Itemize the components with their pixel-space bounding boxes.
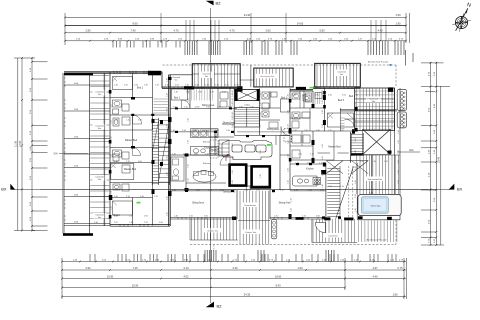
- svg-text:Covered: Covered: [337, 70, 346, 73]
- svg-text:Sitting Area: Sitting Area: [279, 202, 291, 205]
- window lines bottom walls mullions: [178, 217, 322, 219]
- bed in Bed2 top-left: [113, 77, 133, 90]
- lower walls central units: [170, 88, 330, 219]
- svg-text:1.60: 1.60: [226, 130, 230, 132]
- tv unit dashes living: [210, 140, 218, 158]
- svg-text:1.20: 1.20: [328, 130, 332, 132]
- svg-text:1.20: 1.20: [126, 161, 130, 163]
- svg-text:4.75: 4.75: [229, 29, 235, 33]
- svg-text:2.10: 2.10: [189, 216, 193, 218]
- svg-text:3.60: 3.60: [265, 29, 271, 33]
- left unit bath fixtures: [113, 100, 122, 107]
- svg-text:1.40: 1.40: [260, 98, 262, 102]
- covered veranda block B1 top: [192, 64, 240, 88]
- svg-text:2.10: 2.10: [308, 189, 312, 191]
- black wall bottom-left: [63, 233, 93, 236]
- top dimension tick slashes: [64, 16, 407, 18]
- lift shaft with cross: [235, 89, 259, 100]
- svg-text:Uncov. Ver.: Uncov. Ver.: [245, 231, 256, 234]
- overlay section line BX thin: [40, 188, 428, 190]
- svg-text:1.20: 1.20: [154, 196, 158, 198]
- closet right unit: [341, 118, 345, 128]
- svg-text:2.10: 2.10: [304, 130, 308, 132]
- bottom window tick clusters: [90, 254, 396, 262]
- svg-text:2.10: 2.10: [205, 85, 209, 87]
- svg-text:1.40: 1.40: [398, 130, 400, 134]
- svg-text:1.40: 1.40: [166, 196, 168, 200]
- section marker BZ bottom: [206, 302, 214, 308]
- svg-text:Ver: Ver: [340, 73, 344, 76]
- right unit top walls: [290, 87, 360, 91]
- svg-text:14.65: 14.65: [297, 21, 304, 25]
- svg-text:1.40: 1.40: [260, 90, 262, 94]
- svg-text:2.10: 2.10: [310, 153, 314, 155]
- black wall segment between verandas: [296, 87, 306, 90]
- svg-text:Swim Spa: Swim Spa: [371, 206, 382, 208]
- svg-text:1.40: 1.40: [372, 161, 376, 163]
- svg-text:BZ: BZ: [217, 304, 223, 309]
- svg-text:1.40: 1.40: [291, 208, 293, 212]
- door frames unit2: [168, 117, 172, 122]
- svg-text:Bed 2: Bed 2: [137, 87, 144, 90]
- svg-text:Sitting Area: Sitting Area: [192, 202, 204, 205]
- corridor lower wall: [234, 135, 290, 137]
- left balcony strip walls: [64, 73, 90, 234]
- svg-text:0.90: 0.90: [138, 161, 142, 163]
- svg-text:0.90: 0.90: [159, 222, 163, 224]
- svg-text:3.05: 3.05: [175, 85, 179, 87]
- svg-text:Covered: Covered: [95, 214, 104, 217]
- corridor walls central: [234, 88, 259, 135]
- svg-text:1.40: 1.40: [166, 140, 168, 144]
- left unit top wall: [64, 72, 162, 73]
- svg-text:1.40: 1.40: [260, 174, 262, 178]
- svg-text:1.05: 1.05: [328, 186, 332, 188]
- svg-text:2.80: 2.80: [85, 29, 91, 33]
- svg-text:1.40: 1.40: [260, 124, 262, 128]
- svg-text:1.40: 1.40: [288, 124, 290, 128]
- red mark: [227, 154, 229, 156]
- left dimension lines: [14, 58, 35, 231]
- svg-text:2.56: 2.56: [360, 161, 364, 163]
- unit2 interior walls: [170, 88, 237, 191]
- svg-text:1.40: 1.40: [355, 194, 357, 198]
- svg-text:1.40: 1.40: [288, 94, 290, 98]
- svg-text:Uncov. Ver.: Uncov. Ver.: [207, 229, 218, 232]
- lift shaft box 1 black walls: [230, 165, 247, 186]
- small covered ver left of B1: [169, 75, 193, 87]
- svg-text:24.30: 24.30: [244, 292, 251, 296]
- svg-text:1.40: 1.40: [291, 198, 293, 202]
- svg-text:1.40: 1.40: [288, 180, 290, 184]
- svg-text:1.80: 1.80: [392, 292, 398, 296]
- svg-text:17.25: 17.25: [19, 140, 22, 147]
- covered veranda block B3 top: [315, 63, 361, 87]
- svg-text:1.40: 1.40: [111, 154, 113, 158]
- left ladder column second rail: [104, 73, 106, 226]
- svg-text:2.10: 2.10: [182, 130, 186, 132]
- svg-text:Master Bed: Master Bed: [125, 139, 138, 142]
- wall y131.9 continuation under core: [237, 131, 290, 133]
- svg-text:1.40: 1.40: [232, 112, 234, 116]
- top window tick clusters: [113, 41, 180, 48]
- bath cluster left unit more fixtures: [122, 104, 129, 111]
- svg-text:Uncovered Ver: Uncovered Ver: [260, 75, 275, 78]
- svg-text:1.40: 1.40: [398, 140, 400, 144]
- louvre strip right 1: [397, 89, 406, 110]
- svg-text:2.90: 2.90: [85, 266, 91, 270]
- svg-text:1.40: 1.40: [260, 112, 262, 116]
- stair flight diagonal: [336, 166, 354, 218]
- svg-text:4.02: 4.02: [183, 274, 189, 278]
- svg-text:1.40: 1.40: [355, 150, 357, 154]
- svg-text:3.46: 3.46: [232, 266, 238, 270]
- svg-text:Kitchen: Kitchen: [306, 168, 314, 171]
- svg-text:9.43: 9.43: [275, 283, 281, 287]
- svg-text:1.40: 1.40: [322, 110, 324, 114]
- bath cluster unit2 left: [171, 157, 184, 181]
- pool precinct bottom wall: [357, 219, 400, 221]
- svg-text:Lift: Lift: [246, 94, 249, 97]
- svg-text:Architectural Facade: Architectural Facade: [368, 60, 389, 63]
- svg-text:Covered ver: Covered ver: [244, 204, 256, 207]
- svg-text:15.90: 15.90: [132, 283, 139, 287]
- svg-text:G/A: G/A: [409, 148, 414, 152]
- svg-text:2.10: 2.10: [183, 153, 187, 155]
- svg-text:4.97: 4.97: [372, 266, 378, 270]
- small wall stubs details: [215, 108, 341, 161]
- svg-text:1.40: 1.40: [232, 116, 234, 120]
- svg-text:1.40: 1.40: [355, 180, 357, 184]
- bed in Bed2 bottom-left: [113, 201, 133, 215]
- wardrobe hatches right unit top: [315, 92, 320, 104]
- svg-text:1.40: 1.40: [260, 150, 262, 154]
- kitchen center fixtures detail: [219, 140, 229, 156]
- pergola grid right: [355, 88, 395, 131]
- central WC fixtures extra: [262, 111, 269, 117]
- right staircase lower flight: [326, 163, 357, 220]
- svg-text:1.40: 1.40: [166, 212, 168, 216]
- svg-text:1.40: 1.40: [322, 184, 324, 188]
- svg-text:1.20: 1.20: [250, 107, 254, 109]
- svg-text:9.60: 9.60: [132, 21, 138, 25]
- north arrow compass: [452, 8, 470, 31]
- svg-text:Master Bed: Master Bed: [328, 146, 341, 149]
- svg-text:1.20: 1.20: [208, 189, 212, 191]
- window mullions top wall: [114, 71, 150, 74]
- svg-text:1.40: 1.40: [322, 144, 324, 148]
- svg-text:Kitchen: Kitchen: [203, 162, 211, 165]
- door arc bottom right unit: [315, 223, 325, 233]
- svg-text:10.60: 10.60: [275, 274, 282, 278]
- svg-text:Ver: Ver: [98, 216, 102, 219]
- svg-text:4.40: 4.40: [372, 274, 378, 278]
- svg-text:Dining Area: Dining Area: [267, 128, 280, 131]
- svg-text:1.40: 1.40: [111, 136, 113, 140]
- bed in Bed1 unit2: [172, 89, 188, 100]
- covered veranda pergola slats left column: [90, 76, 109, 219]
- small walls around central WC: [218, 88, 280, 120]
- svg-text:1.40: 1.40: [298, 153, 302, 155]
- left balcony division walls: [64, 85, 110, 226]
- unit2 top wall: [162, 72, 237, 89]
- svg-text:Cov'd Ver: Cov'd Ver: [328, 234, 338, 237]
- svg-text:Ver: Ver: [98, 178, 102, 181]
- hatch below pool: [359, 221, 397, 243]
- svg-text:Covered: Covered: [202, 72, 211, 75]
- mullion ticks top wall y88: [174, 87, 230, 89]
- black corner block top right: [388, 87, 393, 92]
- dashed shaft rectangle: [284, 129, 291, 142]
- svg-text:1.40: 1.40: [111, 120, 113, 124]
- svg-text:1.40: 1.40: [398, 170, 400, 174]
- svg-text:3.05: 3.05: [124, 85, 128, 87]
- svg-text:1.40: 1.40: [288, 140, 290, 144]
- svg-text:21.00: 21.00: [15, 140, 18, 147]
- black door frames lower walls: [296, 217, 304, 220]
- blue mark top right: [390, 64, 392, 66]
- dining table right unit: [269, 122, 278, 128]
- svg-text:Ver: Ver: [98, 93, 102, 96]
- svg-text:2.40: 2.40: [114, 216, 118, 218]
- section marker BZ top: [206, 1, 214, 6]
- right edge walls: [395, 50, 414, 220]
- section line BZ: [209, 8, 211, 303]
- bath fixtures right unit: [292, 93, 300, 99]
- left dimension tick stubs: [32, 62, 48, 231]
- svg-text:1.40: 1.40: [166, 156, 168, 160]
- svg-text:1.40: 1.40: [398, 150, 400, 154]
- svg-text:Ver: Ver: [174, 78, 177, 81]
- svg-text:1.40: 1.40: [232, 170, 234, 174]
- svg-text:1.40: 1.40: [232, 180, 234, 184]
- svg-text:7.15: 7.15: [132, 266, 138, 270]
- door arc right unit: [345, 119, 356, 130]
- top dimension extension lines: [161, 13, 286, 43]
- stair central (treads): [234, 108, 259, 128]
- svg-text:1.60: 1.60: [297, 266, 303, 270]
- pool precinct: [358, 195, 401, 216]
- left unit party wall: [169, 75, 171, 226]
- svg-text:Bed 1: Bed 1: [174, 98, 181, 100]
- closet hatch unit2 upper: [192, 89, 213, 101]
- section marker BX left: [10, 184, 15, 190]
- svg-text:Kitchen: Kitchen: [203, 141, 211, 144]
- svg-text:1.20: 1.20: [210, 92, 214, 94]
- svg-text:12.80: 12.80: [195, 107, 200, 109]
- svg-text:4.45: 4.45: [377, 29, 383, 33]
- svg-text:BZ: BZ: [216, 1, 222, 6]
- louvre stack bottom centre: [271, 220, 277, 239]
- svg-text:1.50: 1.50: [395, 13, 401, 17]
- svg-text:3.05: 3.05: [114, 222, 118, 224]
- svg-text:Uncovered Ver: Uncovered Ver: [368, 178, 383, 181]
- extra door jambs along walls: [175, 131, 178, 133]
- svg-text:0.75: 0.75: [397, 266, 403, 270]
- wall texture right bath zone: [290, 91, 313, 146]
- svg-text:Ver: Ver: [98, 127, 102, 130]
- svg-text:1.40: 1.40: [232, 90, 234, 94]
- svg-text:0.90: 0.90: [316, 130, 320, 132]
- bed foot lines master bed right: [318, 152, 331, 154]
- black wall segments unit2 top: [184, 86, 194, 89]
- bed1 left room walls: [170, 97, 190, 99]
- door frames left unit (black): [152, 119, 155, 123]
- green mark left unit: [137, 202, 141, 204]
- black block right mid: [388, 151, 392, 154]
- svg-text:10.90: 10.90: [107, 274, 114, 278]
- corridor gap wall between verandas B1 B2: [250, 65, 252, 87]
- svg-text:1.40: 1.40: [322, 156, 324, 160]
- black wall segment unit2 top: [148, 71, 161, 76]
- svg-text:2.10: 2.10: [126, 196, 130, 198]
- svg-text:1.40: 1.40: [288, 168, 290, 172]
- svg-text:2.10: 2.10: [186, 92, 190, 94]
- green mark sofa: [267, 144, 271, 146]
- svg-text:1.40: 1.40: [355, 90, 357, 94]
- svg-text:3.05: 3.05: [225, 85, 229, 87]
- stair void dashed strip: [348, 166, 350, 219]
- svg-text:G/A: G/A: [53, 153, 58, 156]
- svg-text:0.75: 0.75: [193, 130, 197, 132]
- svg-text:4.30: 4.30: [328, 95, 332, 97]
- hallway lines central bottom: [246, 186, 250, 191]
- svg-text:0.90: 0.90: [198, 92, 202, 94]
- svg-text:0.90: 0.90: [144, 216, 148, 218]
- svg-text:2.10: 2.10: [144, 222, 148, 224]
- svg-text:1.40: 1.40: [114, 196, 118, 198]
- bed in Master Bed left: [111, 164, 134, 180]
- svg-text:BX: BX: [1, 186, 7, 191]
- svg-text:Kitchen: Kitchen: [204, 147, 212, 150]
- bottom veranda hatch right segment: [313, 219, 355, 243]
- living room sofa group: [222, 141, 272, 160]
- section marker BX right: [449, 184, 455, 190]
- bottom dimension lines: [62, 258, 407, 299]
- svg-text:1.40: 1.40: [355, 208, 357, 212]
- svg-text:2.10: 2.10: [183, 266, 189, 270]
- svg-text:1.40: 1.40: [398, 160, 400, 164]
- svg-text:Covered: Covered: [95, 176, 104, 179]
- svg-text:1.40: 1.40: [322, 172, 324, 176]
- wall y110 right with mullions: [340, 109, 397, 111]
- svg-text:1.40: 1.40: [232, 102, 234, 106]
- svg-text:BX: BX: [457, 186, 463, 191]
- svg-text:1.40: 1.40: [232, 143, 234, 147]
- svg-text:1.40: 1.40: [232, 124, 234, 128]
- left unit interior walls: [110, 73, 170, 226]
- svg-text:1.20: 1.20: [280, 189, 284, 191]
- svg-text:2.10: 2.10: [340, 186, 344, 188]
- svg-text:1.40: 1.40: [398, 180, 400, 184]
- svg-text:2.30: 2.30: [144, 85, 148, 87]
- svg-text:1.40: 1.40: [111, 104, 113, 108]
- svg-text:1.40: 1.40: [172, 153, 176, 155]
- svg-text:1.20: 1.20: [274, 216, 278, 218]
- svg-text:0.90: 0.90: [194, 153, 198, 155]
- svg-text:1.40: 1.40: [322, 124, 324, 128]
- svg-text:1.30: 1.30: [204, 130, 208, 132]
- svg-text:1.40: 1.40: [172, 189, 176, 191]
- left unit bottom wall: [110, 225, 170, 227]
- lift shaft box 2 black walls: [252, 166, 270, 187]
- svg-text:1.40: 1.40: [232, 156, 234, 160]
- svg-text:24.30: 24.30: [244, 13, 251, 17]
- svg-text:1.40: 1.40: [166, 93, 168, 97]
- swim spa pool: [361, 197, 388, 213]
- svg-text:1.40: 1.40: [355, 138, 357, 142]
- svg-text:3.05: 3.05: [342, 95, 346, 97]
- bed in Bed1 right: [281, 99, 290, 112]
- window lines left wall mullions: [64, 78, 66, 220]
- overlay section line BZ thin: [209, 60, 211, 250]
- svg-text:2.10: 2.10: [206, 107, 210, 109]
- dashed architectural facade boundary top: [163, 64, 397, 66]
- section line BX: [12, 188, 450, 190]
- svg-text:1.40: 1.40: [293, 130, 297, 132]
- svg-text:1.40: 1.40: [294, 189, 298, 191]
- svg-text:1.40: 1.40: [232, 98, 234, 102]
- right dimension tick stubs: [421, 126, 436, 238]
- svg-text:1.40: 1.40: [322, 100, 324, 104]
- svg-text:0.90: 0.90: [315, 95, 319, 97]
- svg-text:1.40: 1.40: [174, 92, 178, 94]
- svg-text:0.90: 0.90: [239, 107, 243, 109]
- svg-text:Covered: Covered: [95, 91, 104, 94]
- landing black bar: [351, 153, 363, 155]
- GA marker right: [397, 151, 420, 153]
- svg-text:1.20: 1.20: [319, 163, 323, 165]
- svg-text:1.40: 1.40: [129, 222, 133, 224]
- X cross lower pergola: [363, 129, 391, 154]
- svg-text:1.40: 1.40: [111, 206, 113, 210]
- svg-text:1.40: 1.40: [114, 85, 118, 87]
- svg-text:1.40: 1.40: [188, 118, 190, 122]
- kitchen upper counter unit2: [191, 129, 219, 138]
- svg-text:0.90: 0.90: [140, 196, 144, 198]
- left unit internal staircase: [152, 118, 169, 185]
- green highlight marks top wall: [310, 87, 314, 89]
- svg-text:Bed 2: Bed 2: [349, 96, 356, 98]
- svg-text:Bed 3: Bed 3: [338, 99, 345, 102]
- svg-text:1.40: 1.40: [174, 216, 178, 218]
- svg-text:1.40: 1.40: [260, 102, 262, 106]
- svg-text:Covered: Covered: [172, 76, 181, 79]
- door frames right unit: [312, 104, 315, 108]
- svg-text:2.10: 2.10: [126, 119, 130, 121]
- uncovered veranda block B2 top: [254, 68, 293, 87]
- stair top braces: [326, 161, 343, 174]
- svg-text:1.20: 1.20: [205, 153, 209, 155]
- svg-text:1.40: 1.40: [355, 166, 357, 170]
- black blocks at pool: [387, 217, 392, 220]
- black wall top-left: [64, 73, 93, 75]
- extra fixtures central WC: [262, 92, 269, 99]
- svg-text:0.90: 0.90: [256, 189, 260, 191]
- svg-text:1.40: 1.40: [166, 124, 168, 128]
- svg-text:2.40: 2.40: [94, 222, 98, 224]
- svg-text:0.90: 0.90: [134, 85, 138, 87]
- dashed architectural facade boundary bottom: [190, 244, 396, 246]
- master bed right wall: [350, 132, 352, 163]
- svg-text:0.90: 0.90: [320, 189, 324, 191]
- left unit closets: [154, 99, 169, 113]
- top dimension lines: [65, 13, 410, 45]
- svg-text:Ver: Ver: [205, 75, 209, 78]
- door arcs various: [133, 115, 142, 124]
- outer wall double line left: [62, 73, 64, 234]
- svg-text:Lobby: Lobby: [244, 104, 251, 106]
